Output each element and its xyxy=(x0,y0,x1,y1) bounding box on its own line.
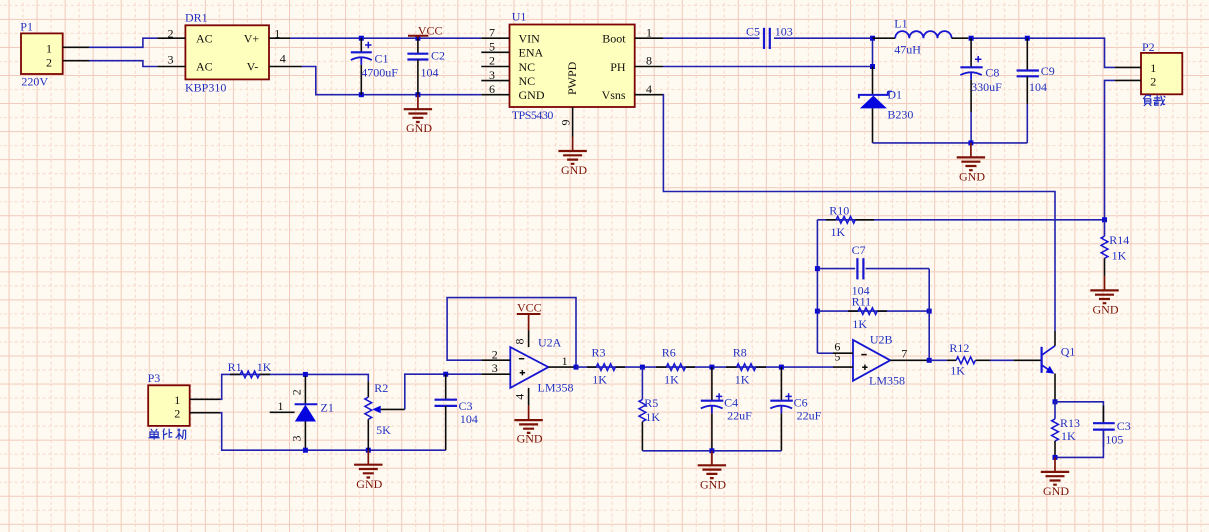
pin P3.2 xyxy=(190,412,220,414)
capacitor C3 104 xyxy=(435,374,478,450)
svg-text:R5: R5 xyxy=(644,396,658,410)
ground symbol GND (C2 node) xyxy=(404,95,433,136)
svg-text:103: 103 xyxy=(775,25,793,39)
junction Boot node xyxy=(870,36,875,41)
wire L1 to P2 (output rail) xyxy=(968,38,1115,67)
svg-text:C6: C6 xyxy=(794,396,808,410)
svg-text:C9: C9 xyxy=(1041,64,1055,78)
svg-text:ENA: ENA xyxy=(519,46,544,60)
wire Q1 emitter to C3 branch xyxy=(1055,402,1103,422)
svg-text:PH: PH xyxy=(610,60,626,74)
resistor R6 1K xyxy=(656,346,695,387)
label 负载 (load) xyxy=(1143,95,1165,106)
svg-text:3: 3 xyxy=(290,436,304,442)
svg-text:C4: C4 xyxy=(724,396,738,410)
svg-text:R3: R3 xyxy=(592,346,606,360)
wire DR1.1 to U1.VIN (VCC rail) xyxy=(290,37,481,39)
pin U1.7 VIN xyxy=(481,25,509,39)
svg-text:3: 3 xyxy=(492,361,498,375)
svg-text:NC: NC xyxy=(519,74,536,88)
ground symbol GND (U1 pin 9) xyxy=(558,137,587,178)
connector P3 xyxy=(148,371,190,426)
svg-text:1: 1 xyxy=(646,25,652,39)
junction C9 node xyxy=(1025,36,1030,41)
svg-text:5K: 5K xyxy=(376,423,391,437)
junction C7 left xyxy=(815,266,820,271)
svg-text:C7: C7 xyxy=(852,243,866,257)
ground symbol GND (filter) xyxy=(698,451,727,492)
svg-text:1K: 1K xyxy=(664,373,679,387)
pin U2B.5 xyxy=(833,349,853,367)
svg-text:C1: C1 xyxy=(375,52,389,66)
junction U2B output node xyxy=(927,358,932,363)
transistor Q1 xyxy=(1014,331,1076,402)
svg-text:4: 4 xyxy=(646,82,652,96)
svg-text:220V: 220V xyxy=(21,75,48,89)
pin Z1.1 reference stub xyxy=(270,399,295,413)
svg-text:R12: R12 xyxy=(949,341,969,355)
svg-text:7: 7 xyxy=(489,25,495,39)
svg-text:P1: P1 xyxy=(20,20,33,34)
wire R10 node vertical (inverting input net) xyxy=(816,220,818,353)
svg-text:5: 5 xyxy=(489,40,495,54)
svg-text:R13: R13 xyxy=(1060,416,1080,430)
op-amp U2B LM358 xyxy=(853,333,905,388)
wire P3.1 to R1 and R2 top xyxy=(220,374,368,399)
svg-text:Z1: Z1 xyxy=(321,401,334,415)
svg-text:2: 2 xyxy=(168,27,174,41)
svg-text:5: 5 xyxy=(834,349,840,363)
wire U1.Boot to C5 xyxy=(663,37,760,39)
svg-text:V-: V- xyxy=(247,60,259,74)
svg-text:1K: 1K xyxy=(852,317,867,331)
svg-text:R10: R10 xyxy=(829,204,849,218)
junction C6 node xyxy=(779,365,784,370)
junction Z1 bottom node xyxy=(303,448,308,453)
svg-text:C3: C3 xyxy=(459,399,473,413)
power port VCC (input rail) xyxy=(408,23,443,38)
svg-text:LM358: LM358 xyxy=(869,374,905,388)
resistor R10 1K xyxy=(826,204,874,240)
svg-text:C5: C5 xyxy=(746,25,760,39)
svg-text:VCC: VCC xyxy=(418,23,443,37)
svg-text:L1: L1 xyxy=(894,17,907,31)
pin U1.6 GND xyxy=(481,82,509,96)
capacitor C4 22uF xyxy=(701,367,752,451)
svg-text:P3: P3 xyxy=(148,371,161,385)
svg-text:R2: R2 xyxy=(374,381,388,395)
inductor L1 47uH xyxy=(873,17,969,57)
svg-text:330uF: 330uF xyxy=(971,80,1002,94)
resistor R12 1K xyxy=(947,341,990,377)
pin DR1.4 xyxy=(269,51,302,66)
junction R13 bottom node xyxy=(1053,455,1058,460)
svg-text:U2A: U2A xyxy=(538,336,562,350)
svg-text:R14: R14 xyxy=(1109,233,1129,247)
junction R5 node xyxy=(640,365,645,370)
wire P2.2 to feedback node xyxy=(1105,80,1116,219)
svg-text:C8: C8 xyxy=(985,66,999,80)
wire R11 row xyxy=(817,310,929,312)
wire C5 to L1 node xyxy=(774,37,873,39)
connector P1 xyxy=(20,20,62,89)
wire feedback node to R10 xyxy=(817,219,1104,221)
wire signal chain row xyxy=(576,366,833,368)
svg-text:C3: C3 xyxy=(1117,419,1131,433)
wire output ground rail xyxy=(873,142,1028,144)
svg-text:1K: 1K xyxy=(1112,249,1127,263)
label 单片机 (MCU) xyxy=(148,429,185,440)
svg-text:2: 2 xyxy=(290,389,304,395)
resistor R14 1K xyxy=(1101,220,1129,276)
svg-text:PWPD: PWPD xyxy=(565,61,579,95)
wire P3.2 to bottom rail xyxy=(220,413,446,451)
resistor R11 1K xyxy=(848,294,887,331)
capacitor C8 330uF xyxy=(960,38,1002,143)
resistor R13 1K xyxy=(1052,402,1080,458)
svg-text:1: 1 xyxy=(46,42,52,56)
svg-text:1K: 1K xyxy=(592,373,607,387)
junction C2 bottom xyxy=(415,92,420,97)
junction PH node xyxy=(870,64,875,69)
pin P2.1 xyxy=(1115,66,1141,68)
svg-text:R1: R1 xyxy=(228,360,242,374)
ground symbol GND (Q1 emitter network) xyxy=(1041,457,1070,498)
junction R11 right xyxy=(927,309,932,314)
wire wiper riser to non-inverting input xyxy=(405,374,482,409)
junction C1 top xyxy=(359,36,364,41)
svg-text:GND: GND xyxy=(959,170,985,184)
capacitor C9 104 xyxy=(1017,38,1055,143)
wire R12 to Q1 base xyxy=(990,359,1014,361)
svg-text:D1: D1 xyxy=(887,88,902,102)
svg-text:4: 4 xyxy=(280,51,286,65)
pin DR1.3 xyxy=(157,52,185,66)
svg-text:7: 7 xyxy=(901,346,907,360)
svg-text:1K: 1K xyxy=(831,225,846,239)
resistor R5 1K xyxy=(639,367,660,451)
pin U1.2 NC xyxy=(481,54,509,68)
pin U2B.7 output xyxy=(890,346,929,360)
bridge rectifier DR1 xyxy=(185,11,269,95)
svg-text:Q1: Q1 xyxy=(1061,345,1076,359)
resistor R8 1K xyxy=(726,346,766,387)
svg-text:GND: GND xyxy=(1043,484,1069,498)
pin DR1.2 xyxy=(157,27,185,41)
capacitor C7 104 xyxy=(852,243,870,298)
svg-text:B230: B230 xyxy=(887,108,913,122)
svg-text:1: 1 xyxy=(1150,61,1156,75)
wire U2A feedback loop xyxy=(447,298,576,368)
svg-text:1K: 1K xyxy=(645,410,660,424)
power port VCC (U2A) xyxy=(517,300,542,330)
ground symbol GND (R14) xyxy=(1090,276,1119,317)
svg-text:U1: U1 xyxy=(512,10,527,24)
svg-text:GND: GND xyxy=(517,431,543,445)
regulator U1 TPS5430 xyxy=(510,10,635,122)
svg-text:GND: GND xyxy=(519,88,545,102)
svg-text:1K: 1K xyxy=(1061,429,1076,443)
junction C8 node xyxy=(969,36,974,41)
svg-text:9: 9 xyxy=(559,120,573,126)
svg-text:C2: C2 xyxy=(431,49,445,63)
svg-text:Vsns: Vsns xyxy=(602,88,626,102)
ground symbol GND (output filter) xyxy=(957,143,986,184)
pin U1.3 NC xyxy=(481,68,509,82)
wire inverting node to U2B.6 xyxy=(817,352,833,354)
pin U1.1 Boot xyxy=(635,25,663,39)
svg-text:8: 8 xyxy=(646,54,652,68)
svg-text:6: 6 xyxy=(489,82,495,96)
wire P1.2 to DR1.3 xyxy=(89,61,157,67)
pin U1.9 PWPD xyxy=(559,107,573,137)
pin U1.5 ENA xyxy=(481,40,509,54)
resistor R3 1K xyxy=(587,346,625,387)
pin U2A.3 xyxy=(481,361,510,375)
svg-text:2: 2 xyxy=(492,348,498,362)
pin P1.1 xyxy=(63,46,89,48)
pin DR1.1 xyxy=(269,27,290,41)
diode D1 B230 xyxy=(859,67,914,143)
svg-text:GND: GND xyxy=(406,121,432,135)
junction Z1 top node xyxy=(303,372,308,377)
junction C3 input node xyxy=(443,372,448,377)
svg-text:V+: V+ xyxy=(244,31,260,45)
svg-text:1: 1 xyxy=(274,27,280,41)
pin U1.4 Vsns xyxy=(635,82,663,96)
pin U2A.1 output xyxy=(548,354,576,368)
svg-text:TPS5430: TPS5430 xyxy=(512,108,554,122)
diode Z1 xyxy=(290,376,334,450)
pin U2A.4 V- xyxy=(513,388,529,406)
capacitor C2 104 xyxy=(407,38,445,94)
wire R2 wiper to U2A.3 xyxy=(381,408,405,410)
capacitor C3 105 xyxy=(1093,406,1131,448)
junction C1 bottom xyxy=(359,92,364,97)
svg-text:1K: 1K xyxy=(735,373,750,387)
svg-text:104: 104 xyxy=(1029,80,1047,94)
svg-text:U2B: U2B xyxy=(870,333,893,347)
pin P3.1 xyxy=(190,398,220,400)
pin U2A.8 V+ xyxy=(512,331,528,348)
svg-text:8: 8 xyxy=(512,339,526,345)
svg-text:GND: GND xyxy=(700,478,726,492)
svg-text:1: 1 xyxy=(562,354,568,368)
svg-text:47uH: 47uH xyxy=(894,42,921,56)
junction filter ground node xyxy=(709,448,714,453)
pin U1.8 PH xyxy=(635,54,663,68)
junction R11 left xyxy=(815,309,820,314)
svg-text:105: 105 xyxy=(1105,433,1123,447)
wire C3 bottom to R13 bottom xyxy=(1055,430,1103,458)
potentiometer R2 5K xyxy=(365,381,391,450)
resistor R1 1K xyxy=(228,360,272,378)
svg-text:2: 2 xyxy=(174,407,180,421)
svg-text:3: 3 xyxy=(168,52,174,66)
svg-text:R6: R6 xyxy=(662,346,676,360)
svg-text:P2: P2 xyxy=(1142,40,1155,54)
svg-text:NC: NC xyxy=(519,60,536,74)
svg-text:2: 2 xyxy=(1150,75,1156,89)
svg-text:22uF: 22uF xyxy=(797,409,822,423)
junction R2 bottom node xyxy=(366,448,371,453)
connector P2 xyxy=(1141,40,1182,95)
wire U1.Vsns to Q1 collector xyxy=(663,95,1055,331)
svg-text:VCC: VCC xyxy=(517,300,542,314)
pin P2.2 xyxy=(1115,79,1141,81)
junction Q1 emitter node xyxy=(1053,399,1058,404)
svg-text:VIN: VIN xyxy=(519,32,541,46)
wire filter ground rail xyxy=(642,450,781,452)
wire C7 row xyxy=(817,268,929,270)
pin U2B.6 xyxy=(833,340,853,354)
pin U2A.2 xyxy=(481,348,510,362)
svg-text:4: 4 xyxy=(513,394,527,400)
svg-text:LM358: LM358 xyxy=(538,381,574,395)
svg-text:4700uF: 4700uF xyxy=(361,66,398,80)
ground symbol GND (U2A) xyxy=(514,406,543,446)
wire C7/R11 right vertical to op-amp output xyxy=(928,269,930,361)
svg-text:22uF: 22uF xyxy=(727,409,752,423)
capacitor C6 22uF xyxy=(770,367,821,451)
svg-text:DR1: DR1 xyxy=(185,11,208,25)
junction VCC node xyxy=(415,36,420,41)
svg-text:R11: R11 xyxy=(852,294,872,308)
svg-text:104: 104 xyxy=(460,412,478,426)
capacitor C5 103 xyxy=(746,25,793,49)
svg-text:1K: 1K xyxy=(950,364,965,378)
junction U2A output node xyxy=(574,365,579,370)
svg-text:GND: GND xyxy=(1093,303,1119,317)
wire DR1.4 to ground rail xyxy=(302,67,481,95)
svg-text:GND: GND xyxy=(561,163,587,177)
wire P1.1 to DR1.2 xyxy=(89,38,157,47)
svg-text:AC: AC xyxy=(196,60,213,74)
junction output ground node xyxy=(968,140,973,145)
svg-text:104: 104 xyxy=(421,66,439,80)
svg-text:2: 2 xyxy=(489,54,495,68)
wire U1.PH to D1 node xyxy=(663,66,873,68)
wire Boot node to PH node xyxy=(872,38,874,66)
pin P1.2 xyxy=(63,60,89,62)
svg-text:AC: AC xyxy=(196,31,213,45)
op-amp U2A LM358 xyxy=(510,336,573,395)
svg-text:3: 3 xyxy=(489,68,495,82)
svg-text:2: 2 xyxy=(46,55,52,69)
svg-text:1: 1 xyxy=(278,399,284,413)
svg-text:1K: 1K xyxy=(257,360,272,374)
ground symbol GND (P3 rail) xyxy=(354,450,383,491)
svg-text:GND: GND xyxy=(356,477,382,491)
capacitor C1 4700uF xyxy=(351,38,399,94)
svg-text:Boot: Boot xyxy=(602,32,626,46)
svg-text:1: 1 xyxy=(174,393,180,407)
wire U2B output to Q1 base xyxy=(929,359,947,361)
svg-text:KBP310: KBP310 xyxy=(185,81,226,95)
junction feedback output node xyxy=(1102,217,1107,222)
svg-text:R8: R8 xyxy=(733,346,747,360)
junction C4 node xyxy=(709,365,714,370)
